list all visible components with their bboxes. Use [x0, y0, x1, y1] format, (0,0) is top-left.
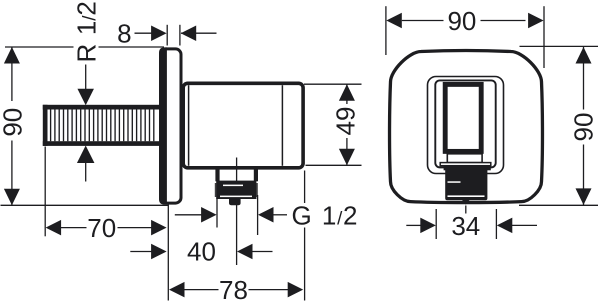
svg-text:49: 49 [331, 107, 361, 136]
centerline tick front view [465, 206, 467, 214]
outlet nut (front view) [440, 154, 491, 166]
dimension 90 top [386, 6, 544, 68]
wall flange (side view) [159, 47, 181, 204]
svg-text:34: 34 [451, 211, 480, 241]
svg-text:78: 78 [219, 275, 248, 305]
body detail line left [188, 85, 190, 166]
dimension 90 left [0, 47, 169, 205]
body detail line right [281, 85, 283, 166]
dimension 8 [117, 19, 216, 49]
svg-text:40: 40 [187, 237, 216, 267]
dimension 70 [45, 147, 166, 243]
svg-text:8: 8 [117, 19, 131, 49]
svg-text:R 1/2: R 1/2 [71, 0, 101, 62]
holder clip frame [445, 84, 481, 151]
svg-text:90: 90 [0, 108, 28, 137]
outlet fitting G 1/2 (side view) [215, 170, 258, 206]
dimension 40 [130, 237, 272, 267]
dimension 90 right [519, 46, 599, 205]
outlet thread (front view) [444, 166, 491, 205]
wall face extension line [167, 205, 169, 301]
holder inner outline [435, 80, 495, 167]
centerline outlet axis [236, 158, 238, 266]
dimension G 1/2 [175, 195, 359, 235]
dimension 78 [169, 171, 305, 305]
svg-text:G 1/2: G 1/2 [291, 200, 358, 230]
dimension 49 [304, 84, 362, 165]
threaded pipe R 1/2 (hatched) [43, 105, 160, 146]
holder outer outline [428, 77, 504, 174]
dimension 34 [406, 209, 537, 241]
body (side view) [183, 83, 303, 168]
svg-text:90: 90 [447, 6, 476, 36]
svg-text:90: 90 [569, 113, 599, 142]
escutcheon squircle (front view) [390, 51, 543, 203]
svg-text:70: 70 [87, 213, 116, 243]
dimension R 1/2 [71, 0, 101, 181]
